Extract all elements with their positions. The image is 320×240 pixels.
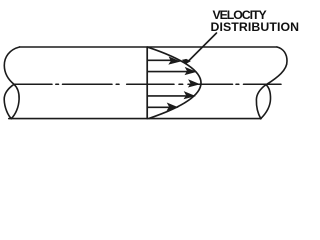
left break S-curve: [4, 47, 19, 84]
label text VELOCITY: [213, 9, 266, 21]
velocity profile datum line: [146, 47, 148, 119]
velocity arrow 2: [148, 68, 196, 75]
velocity profile parabola: [148, 47, 201, 118]
centerline (dash-dot): [14, 83, 281, 85]
pipe bottom wall: [9, 118, 261, 120]
left break loop: [4, 84, 19, 118]
right break S-curve: [266, 47, 287, 85]
centerline velocity arrowhead: [189, 80, 200, 87]
velocity arrow 4: [148, 103, 178, 110]
right break loop: [256, 85, 270, 119]
velocity arrow 3: [148, 92, 195, 99]
leader arrow to velocity profile: [182, 33, 216, 64]
velocity arrow 1: [148, 57, 180, 64]
label text DISTRIBUTION: [211, 21, 300, 33]
pipe top wall: [20, 46, 278, 48]
